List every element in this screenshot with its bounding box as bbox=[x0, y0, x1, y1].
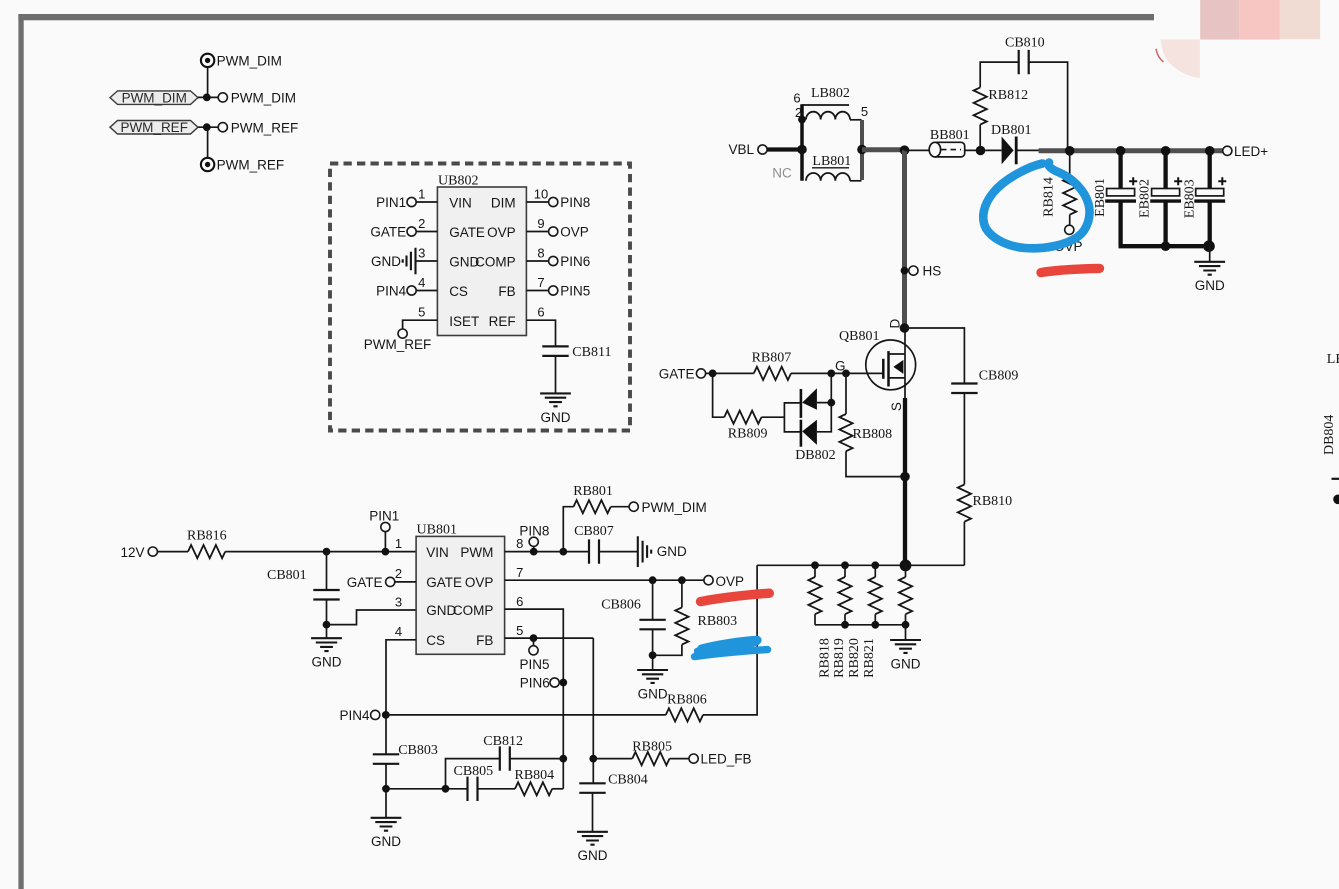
ground bbox=[1194, 262, 1225, 293]
blue marker scribble at RB803 bbox=[698, 640, 758, 652]
capacitor CB812 bbox=[446, 734, 564, 789]
dual diode DB802 bbox=[784, 373, 835, 463]
svg-text:RB819: RB819 bbox=[832, 638, 847, 678]
node PWM_DIM bbox=[629, 500, 707, 515]
wire PIN4 row bbox=[386, 714, 666, 716]
port PWM_DIM target pad bbox=[201, 54, 282, 69]
pin 4 PIN4 bbox=[376, 275, 437, 298]
svg-text:COMP: COMP bbox=[453, 603, 494, 618]
resistor RB807 bbox=[752, 351, 792, 380]
wire FB down bbox=[589, 638, 597, 783]
svg-text:EB801: EB801 bbox=[1093, 178, 1108, 217]
svg-text:CB803: CB803 bbox=[398, 743, 438, 758]
red marker stroke at OVP bbox=[701, 593, 770, 601]
pink block B bbox=[1239, 0, 1280, 40]
svg-text:RB807: RB807 bbox=[752, 351, 792, 366]
wire bbox=[706, 372, 754, 374]
svg-text:REF: REF bbox=[489, 314, 516, 329]
svg-text:VIN: VIN bbox=[426, 545, 449, 560]
svg-text:PIN1: PIN1 bbox=[376, 195, 406, 210]
svg-text:DB804: DB804 bbox=[1322, 415, 1337, 455]
wire RB806 to sense rail bbox=[703, 565, 757, 715]
svg-text:3: 3 bbox=[418, 246, 425, 261]
svg-text:4: 4 bbox=[418, 275, 425, 290]
svg-text:PIN8: PIN8 bbox=[519, 524, 549, 539]
svg-text:LED+: LED+ bbox=[1234, 144, 1268, 159]
ground bbox=[637, 670, 668, 701]
pin 8 PWM row bbox=[505, 524, 589, 556]
svg-text:12V: 12V bbox=[121, 545, 145, 560]
capacitor EB802 bbox=[1138, 151, 1183, 246]
svg-text:6: 6 bbox=[516, 594, 523, 609]
ground bbox=[311, 638, 342, 669]
flag PWM_DIM bbox=[110, 90, 198, 105]
svg-text:PIN5: PIN5 bbox=[560, 283, 590, 298]
capacitor CB809 bbox=[905, 328, 1019, 485]
svg-text:PIN6: PIN6 bbox=[520, 675, 550, 690]
capacitor CB801 bbox=[267, 552, 340, 639]
svg-text:2: 2 bbox=[395, 566, 402, 581]
ground bbox=[540, 393, 571, 424]
svg-text:6: 6 bbox=[537, 305, 544, 320]
node OVP bbox=[1054, 225, 1083, 254]
svg-text:PWM_REF: PWM_REF bbox=[231, 120, 298, 135]
svg-text:LED_FB: LED_FB bbox=[701, 752, 752, 767]
node LED_FB bbox=[689, 752, 752, 767]
wire bbox=[157, 551, 188, 553]
port 12V bbox=[121, 545, 158, 560]
svg-text:G: G bbox=[835, 358, 846, 373]
junction EB801 bbox=[1116, 146, 1126, 156]
pin 7 PIN5 bbox=[526, 275, 590, 298]
svg-text:PWM_DIM: PWM_DIM bbox=[642, 500, 707, 515]
svg-text:7: 7 bbox=[516, 565, 523, 580]
svg-text:3: 3 bbox=[395, 595, 402, 610]
resistor RB820 bbox=[847, 565, 882, 678]
resistor RB812 bbox=[974, 62, 1028, 150]
svg-text:VBL: VBL bbox=[729, 142, 755, 157]
op-amp U-IC UB802 body bbox=[437, 174, 526, 336]
svg-text:OVP: OVP bbox=[560, 224, 589, 239]
svg-text:PWM_DIM: PWM_DIM bbox=[231, 91, 296, 106]
pin PIN1 bbox=[369, 508, 402, 555]
svg-text:PWM_DIM: PWM_DIM bbox=[217, 54, 282, 69]
svg-text:GND: GND bbox=[371, 254, 401, 269]
resistor RB808 bbox=[839, 373, 903, 476]
svg-text:CB810: CB810 bbox=[1005, 36, 1045, 51]
svg-text:6: 6 bbox=[793, 91, 800, 106]
junction RB808 branch bbox=[842, 370, 850, 378]
wire bbox=[198, 126, 218, 128]
svg-text:CB806: CB806 bbox=[601, 597, 641, 612]
capacitor CB807 bbox=[574, 524, 638, 564]
junction source node bbox=[900, 560, 912, 572]
node fragment bbox=[1333, 495, 1339, 505]
pin 5 ISET / PWM_REF bbox=[364, 305, 438, 352]
svg-text:PIN4: PIN4 bbox=[376, 283, 407, 298]
svg-text:HS: HS bbox=[923, 264, 942, 279]
svg-text:DB802: DB802 bbox=[795, 448, 835, 463]
ferrite bead BB801 bbox=[929, 128, 969, 157]
bus diode to LED+ bbox=[1039, 148, 1223, 153]
junction source RB808 bbox=[900, 472, 910, 482]
junction switch node bbox=[900, 145, 910, 155]
svg-text:BB801: BB801 bbox=[930, 128, 970, 143]
svg-text:RB818: RB818 bbox=[817, 638, 832, 678]
svg-text:10: 10 bbox=[534, 187, 548, 202]
svg-text:FB: FB bbox=[498, 284, 515, 299]
IC UB801 body bbox=[416, 523, 505, 655]
svg-text:RB820: RB820 bbox=[847, 638, 862, 678]
svg-text:PIN8: PIN8 bbox=[560, 195, 590, 210]
svg-text:PWM_REF: PWM_REF bbox=[120, 120, 188, 135]
svg-text:PIN5: PIN5 bbox=[519, 657, 549, 672]
pink block D bbox=[1161, 40, 1200, 79]
chassis ground GND bbox=[638, 536, 687, 567]
svg-text:GATE: GATE bbox=[370, 224, 406, 239]
node HS bbox=[901, 264, 942, 279]
pin 5 FB row bbox=[505, 623, 594, 672]
wire bbox=[905, 625, 907, 640]
svg-text:RB810: RB810 bbox=[973, 494, 1013, 509]
svg-text:4: 4 bbox=[395, 624, 402, 639]
svg-text:GND: GND bbox=[657, 544, 687, 559]
resistor RB814 bbox=[1042, 151, 1077, 225]
svg-text:RB814: RB814 bbox=[1042, 177, 1057, 217]
junction bbox=[811, 561, 819, 569]
resistor RB806 bbox=[666, 692, 707, 721]
svg-text:EB802: EB802 bbox=[1138, 179, 1153, 218]
wire bbox=[207, 67, 209, 97]
pin 8 PIN6 bbox=[526, 246, 590, 269]
wire bbox=[555, 356, 557, 394]
wire ground rail thick bbox=[1119, 244, 1212, 248]
junction pin2 bbox=[798, 116, 806, 124]
svg-text:CB812: CB812 bbox=[483, 734, 523, 749]
junction DB802 branch bbox=[827, 370, 835, 378]
bus inductor to switch node bbox=[862, 147, 905, 152]
red marker stroke upper bbox=[1041, 268, 1100, 272]
junction EB802 bbox=[1161, 146, 1171, 156]
port PWM_REF target pad bbox=[201, 158, 284, 173]
svg-text:OVP: OVP bbox=[465, 575, 494, 590]
capacitor EB801 bbox=[1093, 151, 1137, 246]
pin 4 CS wire bbox=[386, 624, 416, 715]
wire 12V to VIN bbox=[225, 551, 416, 553]
junction bbox=[841, 561, 849, 569]
svg-text:LB8: LB8 bbox=[1327, 352, 1339, 367]
junction EB803 bbox=[1205, 146, 1215, 156]
svg-text:OVP: OVP bbox=[487, 225, 516, 240]
svg-text:LB801: LB801 bbox=[812, 154, 851, 169]
svg-text:CB811: CB811 bbox=[572, 345, 611, 360]
schematic border frame top bbox=[18, 14, 1154, 20]
wire source thick bbox=[904, 378, 906, 399]
svg-text:RB801: RB801 bbox=[573, 484, 613, 499]
node PIN6 bbox=[520, 675, 559, 690]
wire bbox=[207, 127, 209, 158]
resistor RB805 bbox=[593, 740, 689, 766]
node PWM_REF bbox=[203, 120, 298, 135]
junction bbox=[323, 548, 331, 556]
wire fragment bbox=[1332, 478, 1339, 480]
svg-text:NC: NC bbox=[772, 166, 792, 181]
svg-text:S: S bbox=[889, 402, 904, 411]
resistor RB821 bbox=[862, 565, 912, 678]
svg-text:2: 2 bbox=[418, 216, 425, 231]
svg-text:8: 8 bbox=[537, 246, 544, 261]
svg-text:CB807: CB807 bbox=[574, 524, 614, 539]
node LED+ bbox=[1223, 144, 1269, 159]
svg-text:FB: FB bbox=[476, 633, 493, 648]
wire VBL thick bbox=[767, 147, 800, 151]
svg-text:CB805: CB805 bbox=[454, 764, 494, 779]
port VBL bbox=[729, 142, 768, 157]
dashed boundary box bbox=[330, 164, 630, 431]
junction bbox=[841, 621, 849, 629]
junction bbox=[871, 561, 879, 569]
inductor LB801 bbox=[772, 154, 861, 181]
junction bbox=[871, 621, 879, 629]
node PWM_DIM bbox=[203, 91, 296, 106]
svg-text:GATE: GATE bbox=[426, 575, 462, 590]
svg-text:1: 1 bbox=[418, 187, 425, 202]
pink block A bbox=[1200, 0, 1239, 40]
pin 10 PIN8 bbox=[526, 187, 590, 210]
svg-text:RB805: RB805 bbox=[632, 740, 672, 755]
svg-text:PIN6: PIN6 bbox=[560, 254, 590, 269]
svg-text:RB809: RB809 bbox=[728, 427, 768, 442]
bus switch node vertical bbox=[902, 150, 907, 328]
svg-text:GATE: GATE bbox=[347, 575, 383, 590]
svg-text:5: 5 bbox=[418, 305, 425, 320]
inductor right bar bbox=[860, 120, 864, 180]
schematic border frame left bbox=[18, 14, 23, 889]
svg-text:EB803: EB803 bbox=[1183, 179, 1198, 218]
pin 6 COMP wire bbox=[505, 594, 568, 789]
svg-text:VIN: VIN bbox=[449, 196, 472, 211]
svg-text:ISET: ISET bbox=[449, 314, 479, 329]
resistor RB810 bbox=[958, 485, 1012, 566]
capacitor CB803 bbox=[373, 715, 438, 818]
svg-text:QB801: QB801 bbox=[839, 329, 879, 344]
red curve mark bbox=[1156, 49, 1164, 62]
inductor left bar bbox=[800, 104, 804, 181]
capacitor CB811 bbox=[542, 345, 611, 360]
svg-text:PWM_REF: PWM_REF bbox=[217, 158, 285, 173]
junction drain bbox=[900, 323, 910, 333]
svg-text:RB804: RB804 bbox=[515, 768, 555, 783]
pin 1 PIN1 bbox=[376, 187, 437, 210]
node GATE bbox=[659, 366, 717, 381]
svg-text:7: 7 bbox=[537, 275, 544, 290]
wire pin3 GNDCOMP bbox=[327, 610, 417, 625]
resistor RB803 bbox=[653, 580, 738, 655]
resistor RB818 bbox=[808, 565, 832, 678]
wire G row bbox=[791, 372, 883, 374]
blue marker loop around RB814 bbox=[983, 163, 1089, 249]
junction bbox=[976, 146, 986, 156]
pin 2 GATE bbox=[370, 216, 437, 239]
svg-text:CB809: CB809 bbox=[979, 369, 1019, 384]
flag PWM_REF bbox=[110, 120, 198, 135]
blue marker scribble lower bbox=[695, 650, 768, 657]
svg-text:COMP: COMP bbox=[475, 255, 516, 270]
svg-text:1: 1 bbox=[395, 536, 402, 551]
junction pin5 bbox=[857, 145, 867, 155]
wire bbox=[198, 96, 218, 98]
capacitor CB806 bbox=[601, 580, 666, 670]
pin 6 REF wire bbox=[526, 305, 555, 347]
wire CB805 row bbox=[386, 785, 468, 793]
ground bbox=[890, 640, 921, 671]
svg-text:5: 5 bbox=[861, 104, 868, 119]
diode DB801 bbox=[986, 123, 1041, 164]
wire to bead bbox=[905, 149, 930, 151]
pin 9 OVP bbox=[526, 216, 588, 239]
svg-text:5: 5 bbox=[516, 623, 523, 638]
svg-text:DB801: DB801 bbox=[991, 123, 1031, 138]
svg-text:RB803: RB803 bbox=[698, 614, 738, 629]
resistor RB809 bbox=[713, 373, 785, 441]
junction VBL bbox=[797, 145, 807, 155]
wire bbox=[1209, 246, 1211, 262]
svg-text:PWM: PWM bbox=[460, 545, 493, 560]
wire sense rail bbox=[757, 564, 964, 566]
node PIN4 bbox=[339, 708, 389, 723]
svg-text:CB801: CB801 bbox=[267, 568, 307, 583]
svg-text:CS: CS bbox=[449, 284, 468, 299]
svg-text:DIM: DIM bbox=[491, 196, 516, 211]
capacitor CB805 bbox=[454, 764, 494, 801]
svg-text:LB802: LB802 bbox=[811, 86, 850, 101]
svg-text:RB806: RB806 bbox=[667, 692, 707, 707]
capacitor CB804 bbox=[579, 772, 647, 831]
inductor LB802 bbox=[793, 86, 868, 120]
svg-text:GATE: GATE bbox=[449, 225, 485, 240]
junction RB814 bbox=[1065, 146, 1075, 156]
svg-text:PIN1: PIN1 bbox=[369, 508, 399, 523]
pin 7 OVP row wire bbox=[505, 565, 704, 584]
resistor RB804 bbox=[478, 768, 564, 795]
junction bbox=[1161, 241, 1171, 251]
pink block C bbox=[1280, 0, 1320, 39]
pin 3 chassis ground bbox=[371, 246, 437, 275]
svg-text:CB804: CB804 bbox=[608, 772, 648, 787]
svg-text:OVP: OVP bbox=[716, 574, 745, 589]
ground bbox=[577, 832, 608, 863]
ground bbox=[371, 818, 402, 849]
pin 2 GATE bbox=[347, 566, 416, 590]
wire bbox=[965, 149, 986, 151]
svg-text:RB808: RB808 bbox=[853, 427, 893, 442]
resistor RB819 bbox=[832, 565, 852, 678]
transistor QB801 (N-MOSFET) bbox=[839, 318, 916, 411]
capacitor EB803 bbox=[1183, 151, 1227, 246]
svg-text:RB812: RB812 bbox=[988, 88, 1028, 103]
svg-text:CS: CS bbox=[426, 633, 445, 648]
resistor RB816 bbox=[187, 528, 227, 558]
svg-text:9: 9 bbox=[537, 216, 544, 231]
node OVP bbox=[704, 574, 744, 589]
svg-text:UB801: UB801 bbox=[417, 523, 457, 538]
wire bottom rail bbox=[815, 624, 906, 626]
svg-text:PWM_DIM: PWM_DIM bbox=[122, 90, 187, 105]
svg-text:GATE: GATE bbox=[659, 366, 695, 381]
svg-text:RB816: RB816 bbox=[187, 528, 227, 543]
svg-text:PIN4: PIN4 bbox=[339, 708, 370, 723]
junction bbox=[1203, 240, 1215, 252]
svg-text:RB821: RB821 bbox=[862, 638, 877, 678]
resistor RB801 bbox=[563, 484, 629, 551]
svg-text:PWM_REF: PWM_REF bbox=[364, 337, 432, 352]
junction bbox=[902, 621, 910, 629]
capacitor CB810 bbox=[1005, 36, 1068, 149]
